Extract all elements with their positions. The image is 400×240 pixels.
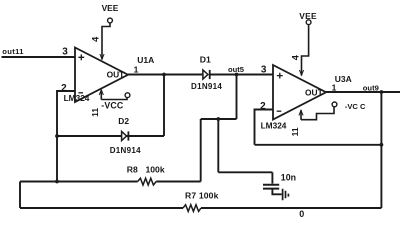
wire capacitor bottom stem to ground: [272, 190, 281, 195]
junction D2 anode node: [55, 134, 59, 138]
svg-text:D1N914: D1N914: [191, 82, 222, 91]
wire bottom rail right of R7: [201, 207, 381, 209]
op-amp U3A triangle: [273, 65, 326, 120]
wire left drop to bottom rail: [19, 182, 21, 209]
resistor R7: [183, 205, 201, 212]
VEE supply 2 wire to U3A pin4: [302, 25, 309, 76]
power VEE bubble (U3A): [306, 20, 311, 25]
svg-text:D1N914: D1N914: [110, 146, 141, 155]
svg-text:U1A: U1A: [137, 55, 154, 65]
svg-text:VEE: VEE: [299, 11, 317, 21]
wire capacitor top stem: [271, 172, 273, 183]
svg-text:VEE: VEE: [102, 3, 119, 13]
svg-text:4: 4: [91, 36, 101, 42]
wire R8 rail right segment: [156, 181, 201, 183]
svg-text:R7 100k: R7 100k: [185, 191, 219, 201]
svg-text:D1: D1: [200, 54, 211, 64]
wire U3A pin2 left and down: [255, 110, 274, 145]
U3A pin11 arrowhead: [299, 110, 303, 115]
wire x=200.7 drop to R8 rail: [200, 119, 202, 182]
wire y=144.8 feedback: [255, 144, 382, 146]
svg-text:OUT: OUT: [107, 70, 126, 80]
svg-text:OUT: OUT: [305, 88, 324, 98]
svg-text:R8: R8: [127, 164, 138, 174]
wire y=172.3 to capacitor: [218, 171, 272, 173]
svg-text:100k: 100k: [146, 164, 165, 174]
wire output drop at x=164: [163, 75, 165, 137]
svg-text:-VCC: -VCC: [101, 100, 124, 110]
wire U1A output to D1 anode: [128, 74, 203, 76]
wire out5 drop: [236, 75, 238, 120]
U1A pin11 wire to -VCC bubble: [101, 90, 127, 100]
svg-text:3: 3: [62, 47, 68, 58]
svg-text:4: 4: [290, 54, 300, 60]
op-amp U3A plus: [277, 73, 283, 79]
wire right riser out9 to bottom rail: [380, 92, 382, 208]
wire net out11 to U1A pin 3: [2, 56, 76, 58]
svg-text:LM324: LM324: [261, 121, 287, 131]
U3A pin11 wire to -VCC bubble: [301, 107, 334, 120]
VEE supply 1 wire to U1A pin4: [102, 23, 110, 60]
U1A pin4 arrowhead: [100, 54, 104, 59]
diode D1: [203, 70, 210, 79]
svg-text:out11: out11: [2, 47, 24, 56]
power VEE bubble (U1A): [108, 18, 113, 23]
junction U1A output branch: [162, 73, 166, 77]
wire U1A pin 2 feedback down: [57, 91, 75, 182]
wire out9: [326, 91, 400, 93]
wire D1 cathode to U3A pin 3 (net out5): [210, 74, 273, 76]
junction R8 rail node: [55, 180, 59, 184]
svg-text:11: 11: [90, 108, 100, 117]
wire D2 branch horizontal: [57, 135, 164, 137]
op-amp U3A minus: [277, 110, 282, 112]
ground 0: [283, 189, 289, 201]
svg-text:10n: 10n: [281, 172, 296, 182]
diode D2: [122, 131, 129, 140]
svg-text:out5: out5: [228, 65, 245, 74]
op-amp U1A plus: [78, 54, 84, 60]
svg-text:0: 0: [299, 209, 304, 219]
junction node out5: [235, 73, 239, 77]
svg-text:out9: out9: [363, 83, 379, 92]
wire node y=119: [201, 118, 237, 120]
junction U3A feedback: [380, 143, 384, 147]
svg-text:U3A: U3A: [335, 74, 352, 84]
capacitor C1 10n: [263, 185, 279, 189]
svg-text:LM324: LM324: [64, 93, 90, 103]
svg-text:D2: D2: [118, 116, 129, 126]
power -VCC bubble (U1A): [125, 93, 130, 98]
junction capacitor branch: [216, 117, 220, 121]
svg-text:2: 2: [260, 101, 266, 112]
wire bottom rail left of R7: [20, 207, 183, 209]
op-amp U1A triangle: [75, 48, 128, 103]
wire x=218.3 drop: [217, 119, 219, 172]
junction node out9: [380, 90, 384, 94]
wire R8 rail left segment: [20, 181, 138, 183]
U3A pin4 arrowhead: [299, 70, 303, 75]
resistor R8: [138, 178, 157, 185]
U1A pin11 arrowhead: [99, 90, 103, 95]
svg-text:-VC C: -VC C: [345, 102, 366, 111]
svg-text:3: 3: [261, 64, 267, 75]
svg-text:1: 1: [134, 65, 139, 75]
power -VCC bubble (U3A): [332, 102, 337, 107]
svg-text:11: 11: [290, 127, 300, 136]
op-amp U1A minus: [78, 92, 83, 94]
